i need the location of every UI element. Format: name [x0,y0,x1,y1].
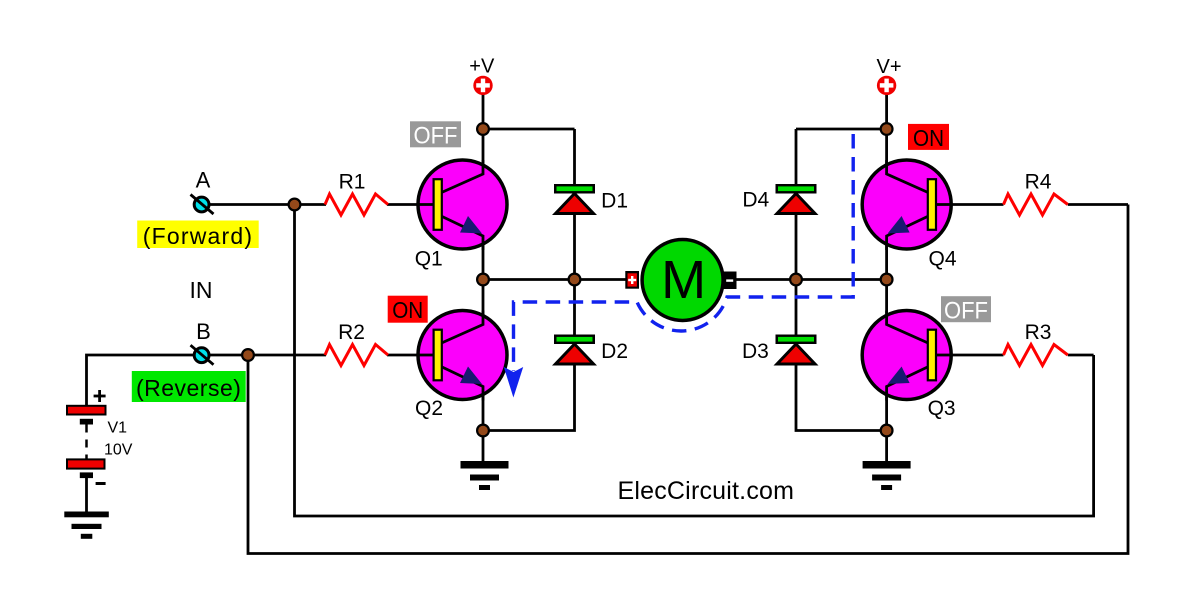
svg-text:R1: R1 [339,171,366,194]
junction dot Q1 emitter [477,274,489,286]
wire Q1-Q2 vertical column [482,129,485,431]
terminal B [191,345,214,365]
wire R3 to right drop [1068,354,1094,357]
transistor Q4 [862,160,951,250]
junction dot top left [477,123,489,135]
wire Q3 ground stem [885,431,888,463]
resistor R1 [325,194,388,215]
wire Q4-Q3 vertical column [885,129,888,431]
current path (blue dashed) [514,134,854,371]
svg-text:Q4: Q4 [928,248,956,271]
wire node B to R2 [248,354,326,357]
svg-text:10V: 10V [104,441,133,458]
diode D2 [554,335,595,365]
transistor Q1 [418,160,507,250]
label ON Q2 [388,296,428,323]
wire D4 column [795,129,798,280]
junction dot node A [289,199,301,211]
power symbol V+ [877,76,896,95]
svg-text:D3: D3 [742,340,769,363]
junction dot Q4 emitter [881,274,893,286]
svg-text:Q3: Q3 [928,397,956,420]
terminal A [191,195,214,215]
wire +V stem [482,94,485,129]
svg-text:V1: V1 [108,420,128,437]
svg-text:D4: D4 [742,188,769,211]
motor negative terminal [723,272,737,290]
wire terminal B to node B junction [202,354,248,357]
svg-text:R2: R2 [338,321,365,344]
junction dot Q2 ground [477,425,489,437]
wire battery negative to ground [85,477,88,512]
label OFF Q3 [941,296,991,324]
svg-text:ON: ON [913,125,944,151]
svg-text:ElecCircuit.com: ElecCircuit.com [618,477,795,505]
motor M1 [642,240,723,321]
label ON Q4 [908,124,949,151]
wire R1 to Q1 base [387,203,435,206]
wire mid rail left to motor [483,278,628,281]
svg-text:(Forward): (Forward) [143,223,253,249]
resistor R3 [1004,345,1068,366]
wire Q4 base to R4 [935,203,1004,206]
transistor Q3 [862,311,951,401]
wire top rail left to D1 [483,128,575,131]
ground Q2 [461,461,509,490]
label OFF Q1 [410,121,461,149]
battery plus sign [94,390,106,402]
svg-text:A: A [196,167,211,192]
power symbol +V [473,76,492,95]
svg-text:R4: R4 [1025,171,1052,194]
transistor Q2 [418,311,507,401]
wire R2 to Q2 base [387,354,435,357]
label (Forward) [137,221,259,250]
svg-text:R3: R3 [1025,321,1052,344]
wire V+ stem [885,94,888,129]
diode D4 [776,184,817,214]
svg-text:B: B [196,319,211,344]
ground battery [64,512,109,539]
resistor R4 [1004,194,1068,215]
wire battery positive to terminal B [87,355,203,407]
svg-text:+V: +V [469,56,495,78]
wire top rail right to D4 [796,128,887,131]
wire D2 column [483,280,575,431]
svg-text:ON: ON [392,297,423,323]
wire node A to R1 [295,203,327,206]
wire R4 to right drop [1068,203,1128,206]
junction dot D4-D3 [790,274,802,286]
battery V1 [67,406,106,485]
svg-text:D2: D2 [601,340,628,363]
svg-text:M: M [661,250,706,310]
motor positive terminal [625,271,639,289]
wire Q2 ground stem [482,431,485,463]
resistor R2 [325,345,388,366]
junction dot node B [242,349,254,361]
wire terminal A to node A junction [202,203,295,206]
svg-text:OFF: OFF [414,123,458,150]
diode D3 [776,335,817,365]
current path arrowhead [504,367,523,398]
wire D3 column [796,280,887,431]
junction dot Q3 ground [881,425,893,437]
junction dot top right [881,123,893,135]
svg-text:IN: IN [190,277,213,303]
svg-text:Q1: Q1 [415,248,443,271]
wire D1 column [573,129,576,280]
label (Reverse) [132,371,246,402]
svg-text:D1: D1 [601,190,628,213]
svg-text:OFF: OFF [944,298,988,325]
svg-text:V+: V+ [876,56,901,78]
diode D1 [554,184,595,214]
svg-text:Q2: Q2 [415,397,443,420]
junction dot D1-D2 [569,274,581,286]
ground Q3 [863,461,911,490]
wire motor to mid rail right [736,278,887,281]
wire node A loop to R3 [295,205,1094,517]
wire Q3 base to R3 [935,354,1004,357]
svg-text:(Reverse): (Reverse) [136,375,241,401]
wire node B loop to R4 [248,205,1128,554]
